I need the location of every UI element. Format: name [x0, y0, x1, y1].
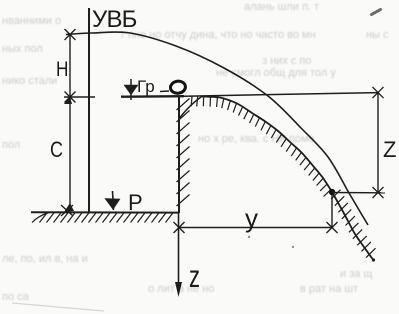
ghost diagonal streak bottom-left [12, 303, 104, 311]
label Gr [137, 77, 155, 96]
point on profile (dot) [329, 189, 335, 195]
arrow cross at H top [65, 29, 76, 40]
arrow cross at z top [373, 87, 384, 98]
label УВБ [92, 6, 137, 33]
rounded crest arc [180, 97, 202, 118]
svg-text:з них с по: з них с по [262, 55, 312, 67]
face hatching [177, 99, 190, 207]
svg-text:Н: Н [56, 59, 68, 82]
svg-text:алань шли п. т: алань шли п. т [244, 1, 319, 13]
label y [245, 203, 258, 233]
depression curve (free surface from УВБ) [66, 32, 368, 225]
tick between Gr and O [160, 90, 169, 93]
level mark nabla Gr [125, 79, 137, 100]
spillway vertical face [178, 96, 180, 213]
dimension line y (horizontal) [179, 227, 332, 229]
z axis (vertical, downward) [175, 213, 182, 297]
ground hatching [32, 213, 173, 223]
svg-text:УВБ: УВБ [92, 6, 137, 33]
svg-text:у: у [245, 203, 258, 233]
spillway profile curve [201, 97, 374, 262]
svg-text:Р: Р [128, 190, 143, 215]
svg-text:в рат на шт: в рат на шт [300, 283, 358, 295]
arrow cross at C bottom on ground [61, 203, 74, 216]
arrow cross at H bottom / C top [64, 92, 76, 105]
arrow cross at z bottom [373, 187, 384, 198]
leader from dot down to y line [331, 195, 333, 228]
svg-text:z: z [189, 258, 200, 294]
svg-text:пол: пол [2, 139, 20, 151]
svg-text:Гр: Гр [137, 77, 155, 96]
profile hatching [191, 96, 375, 257]
svg-text:т пне но отчу дина, что но час: т пне но отчу дина, что но часто во мн [120, 29, 316, 41]
small specks below y line [248, 236, 294, 248]
level mark nabla P [106, 191, 119, 210]
svg-text:Z: Z [383, 137, 396, 162]
svg-text:ны с: ны с [366, 29, 389, 41]
svg-text:по са: по са [2, 291, 30, 303]
wall (upstream vertical face line) [88, 8, 90, 213]
arrow cross at y left [174, 222, 185, 233]
svg-text:нванними о: нванними о [2, 15, 61, 27]
svg-text:С: С [50, 138, 63, 162]
svg-text:ных пол: ных пол [2, 43, 43, 55]
label z (axis) [189, 258, 200, 294]
label O (origin point) [170, 80, 187, 94]
label H [56, 59, 68, 82]
label P [128, 190, 143, 215]
svg-text:ле, по, ил в, на и: ле, по, ил в, на и [2, 253, 88, 265]
label z (dimension) [383, 137, 396, 162]
ground line [31, 211, 179, 213]
dimension line z (vertical right) [332, 93, 385, 193]
svg-text:нико стали: нико стали [2, 75, 57, 87]
svg-text:и за щ: и за щ [340, 268, 372, 280]
arrow cross at y right [327, 222, 338, 233]
ghost slash top-right [372, 10, 381, 15]
label C [50, 138, 63, 162]
dimension line H-C (vertical at x=70) [64, 35, 95, 210]
profile end blob [372, 258, 375, 261]
svg-text:но х ре, ква. с НК помо: но х ре, ква. с НК помо [198, 133, 315, 145]
crest level line (O line) [121, 93, 378, 97]
